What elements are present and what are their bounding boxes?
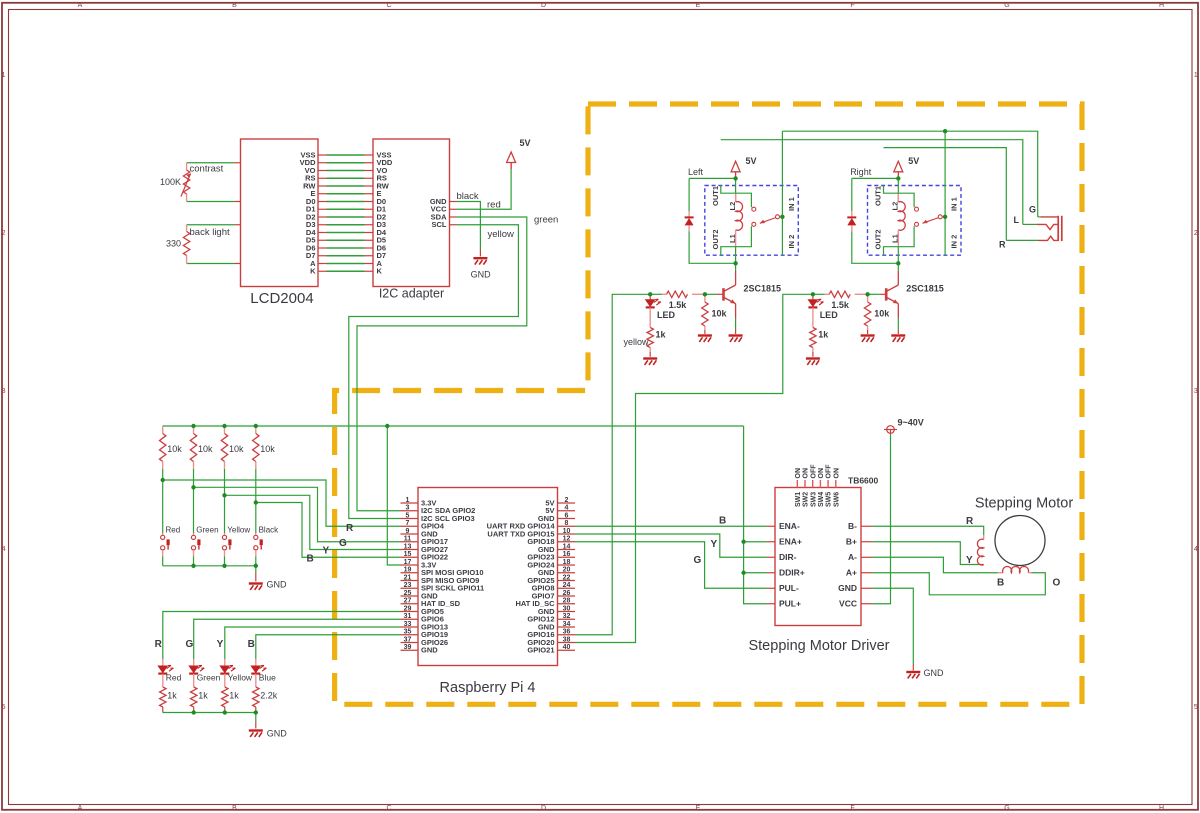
resistor stub	[662, 293, 667, 295]
svg-text:Yellow: Yellow	[227, 526, 250, 535]
junction	[192, 710, 196, 714]
junction	[254, 500, 258, 504]
svg-text:R: R	[346, 523, 354, 534]
junction	[865, 292, 869, 296]
svg-text:25: 25	[404, 590, 412, 597]
wire LCD pin RS to I2C	[318, 177, 327, 179]
resistor R-led1 1k body	[160, 687, 166, 707]
wire to diode	[851, 178, 853, 211]
svg-text:black: black	[457, 191, 479, 202]
RPi pin 25 stub	[401, 595, 419, 597]
wire LCD pin D4 to I2C	[318, 232, 327, 234]
svg-text:OFF: OFF	[810, 464, 817, 479]
wire 5V to coil	[897, 178, 899, 202]
wire contrast top	[187, 162, 235, 164]
wire LCD pin E to I2C	[318, 193, 327, 195]
emitter wire	[897, 304, 899, 318]
wire to diode	[688, 178, 690, 211]
svg-text:32: 32	[563, 613, 571, 620]
I2C adapter module U-I2C	[373, 139, 450, 287]
svg-text:100K: 100K	[160, 177, 181, 187]
svg-text:SCL: SCL	[432, 220, 447, 229]
junction	[733, 176, 737, 180]
svg-text:B: B	[997, 577, 1004, 588]
ground (I2C)	[473, 258, 487, 264]
wire right OUT1 to jack R	[884, 148, 1007, 241]
motor winding A (horizontal coil)	[1003, 567, 1029, 573]
LED D-Yellow	[220, 665, 235, 673]
relay module Right: blue dashed box	[868, 186, 962, 256]
svg-text:1.5k: 1.5k	[669, 300, 688, 310]
relay switch arm pivot	[776, 215, 780, 219]
svg-text:L2: L2	[728, 202, 737, 211]
svg-text:Y: Y	[217, 639, 224, 650]
wire 3.3V to DDIR+	[744, 572, 767, 574]
svg-text:back light: back light	[190, 227, 230, 238]
svg-text:Yellow: Yellow	[228, 673, 253, 683]
RPi pin 20 stub	[558, 572, 576, 574]
wire to ground	[255, 566, 257, 573]
svg-text:1k: 1k	[656, 330, 667, 340]
TB6600 pin SW4 stub	[819, 480, 821, 488]
resistor R-pullup4 stub	[255, 462, 257, 470]
resistor R-pullup3 10k body	[221, 434, 227, 462]
wire	[163, 565, 256, 567]
resistor R-pullup4 10k body	[253, 434, 259, 462]
pin stub VCC	[450, 208, 457, 210]
TB6600 pin PUL+ stub	[767, 603, 775, 605]
RPi pin 31 stub	[401, 618, 419, 620]
junction	[222, 424, 226, 428]
5V power symbol (Right)	[894, 161, 903, 172]
wire LCD pin D0 to I2C	[318, 201, 327, 203]
svg-text:G: G	[1029, 204, 1036, 214]
wire LCD pin VDD to I2C	[318, 162, 327, 164]
resistor R-pullup1 stub	[162, 462, 164, 470]
svg-text:2.2k: 2.2k	[260, 690, 278, 700]
wire LCD pin VSS to I2C	[318, 154, 327, 156]
LED D-Red	[158, 665, 173, 673]
wire LCD pin D1 to I2C	[318, 208, 327, 210]
svg-text:5: 5	[1194, 704, 1198, 711]
wire relay IN1 net to jack G	[782, 131, 1037, 217]
svg-text:IN 1: IN 1	[950, 197, 959, 211]
coil stub	[983, 535, 985, 539]
svg-text:Blue: Blue	[259, 673, 276, 683]
svg-text:L2: L2	[891, 202, 900, 211]
wire LCD pin K to I2C	[318, 270, 327, 272]
wire 9~40V to VCC	[873, 434, 891, 604]
RPi pin 6 stub	[558, 518, 576, 520]
svg-text:22: 22	[563, 574, 571, 581]
svg-text:9~40V: 9~40V	[898, 417, 924, 427]
svg-text:8: 8	[565, 520, 569, 527]
svg-text:GND: GND	[267, 580, 288, 590]
TB6600 pin SW2 stub	[804, 480, 806, 488]
wire LCD pin D7 to I2C	[318, 255, 327, 257]
wire LCD pin D5 to I2C	[318, 239, 327, 241]
LED D-Green	[189, 665, 204, 673]
dashed highlight zone boundary	[335, 104, 1082, 704]
junction	[741, 540, 745, 544]
wire 3.3V rail to RPi pin17	[387, 426, 400, 565]
svg-text:O: O	[1053, 577, 1061, 588]
resistor R-pd-left 10k body	[702, 302, 708, 326]
resistor R-pd-right 10k body	[864, 302, 870, 326]
RPi pin 9 stub	[401, 533, 419, 535]
coil stub	[998, 572, 1004, 574]
resistor pin stub	[186, 225, 188, 232]
wire RPi pin31 to LED Green	[194, 619, 401, 659]
wire button Red to RPi	[163, 480, 401, 526]
RPi pin 22 stub	[558, 580, 576, 582]
TB6600 pin DIR- stub	[767, 556, 775, 558]
diode D-Left flyback	[685, 216, 694, 218]
RPi pin 8 stub	[558, 525, 576, 527]
svg-text:PUL+: PUL+	[779, 598, 801, 608]
wire pullup2 to button	[193, 469, 195, 533]
svg-text:Green: Green	[197, 673, 221, 683]
svg-text:3: 3	[1194, 388, 1198, 395]
svg-text:21: 21	[404, 574, 412, 581]
junction	[254, 710, 258, 714]
RPi pin 33 stub	[401, 626, 419, 628]
TB6600 pin VCC stub	[861, 603, 873, 605]
svg-text:4: 4	[2, 546, 6, 553]
pushbutton SW-Yellow	[222, 535, 231, 550]
wire pullup4 to button	[255, 469, 257, 533]
svg-text:5V: 5V	[908, 156, 919, 166]
RPi pin 16 stub	[558, 556, 576, 558]
relay module Left: blue dashed box	[705, 186, 799, 256]
svg-text:10k: 10k	[260, 444, 275, 454]
svg-text:E: E	[696, 805, 701, 812]
svg-text:13: 13	[404, 543, 412, 550]
svg-text:2SC1815: 2SC1815	[744, 284, 782, 294]
svg-text:3: 3	[2, 388, 6, 395]
resistor stub	[867, 294, 869, 302]
Raspberry Pi 4 module U-RPI	[418, 488, 558, 666]
wire 3.3V rail	[163, 425, 744, 427]
svg-text:OUT1: OUT1	[711, 186, 720, 206]
TB6600 pin ENA+ stub	[767, 541, 775, 543]
wire button Black to RPi	[256, 503, 401, 558]
svg-text:ENA-: ENA-	[779, 521, 800, 531]
TB6600 pin SW6 stub	[835, 480, 837, 488]
wire A+ loop	[873, 573, 1046, 595]
svg-text:R: R	[155, 639, 163, 650]
RPi pin 24 stub	[558, 587, 576, 589]
wire VCC to 5V	[457, 169, 512, 209]
wire OUT1 to contact	[721, 186, 752, 208]
svg-text:12: 12	[563, 536, 571, 543]
pushbutton SW-Red	[161, 535, 170, 550]
9~40V power symbol	[884, 426, 897, 434]
relay coil L1/L2 (Right)	[898, 202, 905, 231]
wire backlight top	[187, 224, 235, 226]
coil stub	[735, 230, 737, 247]
resistor R-led4 2.2k body	[253, 687, 259, 707]
base stub	[880, 293, 887, 295]
svg-text:27: 27	[404, 598, 412, 605]
wire	[781, 131, 783, 255]
svg-text:OUT2: OUT2	[874, 229, 883, 249]
svg-text:SW5: SW5	[826, 492, 833, 507]
svg-text:GND: GND	[838, 583, 857, 593]
svg-text:E: E	[696, 2, 701, 9]
svg-text:38: 38	[563, 636, 571, 643]
svg-text:10k: 10k	[167, 444, 182, 454]
svg-text:10k: 10k	[712, 309, 728, 319]
relay switch arm pivot	[938, 215, 942, 219]
svg-text:1k: 1k	[818, 330, 829, 340]
ground (LED)	[806, 359, 820, 365]
RPi pin 26 stub	[558, 595, 576, 597]
wire LCD pin A to I2C	[318, 263, 327, 265]
svg-text:2: 2	[2, 230, 6, 237]
junction	[703, 292, 707, 296]
svg-text:40: 40	[563, 644, 571, 651]
RPi pin 38 stub	[558, 642, 576, 644]
resistor R-led-left 1k body	[647, 328, 653, 348]
resistor stub	[825, 293, 830, 295]
LED pin stub	[193, 674, 195, 687]
wire diode to coil bottom	[689, 232, 736, 264]
junction	[741, 571, 745, 575]
wire B+ to coil bottom	[873, 542, 980, 565]
resistor R-pullup4 stub	[255, 426, 257, 434]
resistor pin stub	[186, 256, 188, 264]
pushbutton SW-Green	[191, 535, 200, 550]
RPi pin 23 stub	[401, 587, 419, 589]
relay contact (bottom)	[915, 222, 919, 226]
svg-text:ON: ON	[833, 468, 840, 479]
svg-text:Y: Y	[966, 555, 973, 566]
wire RPi pin33 to LED Yellow	[225, 627, 401, 659]
svg-text:H: H	[1159, 805, 1164, 812]
Stepping Motor body	[995, 516, 1045, 566]
svg-text:G: G	[339, 538, 347, 549]
LED pin stub	[193, 659, 195, 666]
wire 3.3V to ENA+	[744, 541, 767, 543]
resistor R-pullup1 10k body	[160, 434, 166, 462]
wire to LED	[649, 294, 651, 299]
diode stub	[851, 211, 853, 217]
wire LCD pin RW to I2C	[318, 185, 327, 187]
svg-text:C: C	[386, 805, 391, 812]
svg-text:Raspberry Pi 4: Raspberry Pi 4	[440, 680, 536, 696]
resistor stub	[855, 293, 868, 295]
svg-text:1k: 1k	[167, 690, 177, 700]
wire OUT1 to contact	[884, 186, 915, 208]
wire RPi pin36 to left transistor base	[575, 294, 650, 634]
resistor R-backlight 330 body	[183, 232, 189, 256]
svg-text:31: 31	[404, 613, 412, 620]
resistor R-pullup3 stub	[224, 462, 226, 470]
junction	[191, 564, 195, 568]
RPi pin 40 stub	[558, 649, 576, 651]
svg-text:SW1: SW1	[795, 492, 802, 507]
transistor Q-right 2SC1815	[886, 285, 898, 304]
svg-text:D: D	[541, 805, 546, 812]
svg-text:10k: 10k	[198, 444, 213, 454]
svg-text:A: A	[78, 2, 83, 9]
transistor Q-left 2SC1815	[724, 285, 736, 304]
RPi pin 17 stub	[401, 564, 419, 566]
svg-text:B: B	[307, 553, 314, 564]
wire button Red to gnd rail	[162, 557, 164, 566]
resistor R-led2 1k body	[191, 687, 197, 707]
svg-text:4: 4	[565, 505, 569, 512]
junction	[191, 424, 195, 428]
svg-text:F: F	[850, 805, 854, 812]
wire RPi pin29 to LED Red	[163, 612, 401, 660]
svg-text:A+: A+	[846, 567, 857, 577]
svg-text:19: 19	[404, 567, 412, 574]
wire B- to motor coil	[873, 526, 984, 535]
svg-text:B: B	[232, 805, 237, 812]
svg-text:3: 3	[406, 505, 410, 512]
LED pin stub	[162, 674, 164, 687]
svg-text:OUT2: OUT2	[711, 229, 720, 249]
svg-text:TB6600: TB6600	[848, 476, 879, 486]
svg-text:SW6: SW6	[833, 492, 840, 507]
svg-text:IN 1: IN 1	[787, 197, 796, 211]
svg-text:A-: A-	[848, 552, 857, 562]
svg-text:IN 2: IN 2	[950, 235, 959, 249]
wire	[1023, 223, 1037, 225]
svg-text:15: 15	[404, 551, 412, 558]
wire LCD pin VO to I2C	[318, 170, 327, 172]
LED stub	[649, 308, 651, 328]
resistor R-led3 1k body	[222, 687, 228, 707]
svg-text:37: 37	[404, 636, 412, 643]
diode D-Right flyback	[847, 216, 856, 218]
svg-text:ON: ON	[803, 468, 810, 479]
svg-text:K: K	[377, 267, 383, 276]
svg-text:ON: ON	[795, 468, 802, 479]
wire LCD pin D3 to I2C	[318, 224, 327, 226]
svg-text:36: 36	[563, 629, 571, 636]
RPi pin 32 stub	[558, 618, 576, 620]
pin stub SCL	[450, 224, 457, 226]
svg-text:B: B	[232, 2, 237, 9]
wire to ground	[255, 713, 257, 723]
RPi pin 19 stub	[401, 572, 419, 574]
wire to LED	[812, 294, 814, 299]
5V power symbol (I2C)	[507, 152, 516, 163]
TB6600 pin A+ stub	[861, 572, 873, 574]
svg-text:D: D	[541, 2, 546, 9]
svg-text:330: 330	[166, 238, 181, 248]
svg-text:Y: Y	[711, 539, 718, 550]
TB6600 pin SW5 stub	[827, 480, 829, 488]
svg-text:10k: 10k	[874, 309, 890, 319]
RPi pin 34 stub	[558, 626, 576, 628]
relay contact (top)	[915, 207, 919, 211]
svg-text:ENA+: ENA+	[779, 536, 802, 546]
diode stub	[688, 225, 690, 231]
svg-text:Stepping Motor Driver: Stepping Motor Driver	[748, 638, 889, 654]
svg-text:35: 35	[404, 629, 412, 636]
wire diode to coil bottom	[852, 232, 899, 264]
svg-text:Left: Left	[688, 167, 704, 177]
svg-text:LED: LED	[657, 310, 676, 320]
junction	[222, 493, 226, 497]
wire	[1038, 216, 1041, 218]
RPi pin 36 stub	[558, 634, 576, 636]
RPi pin 21 stub	[401, 580, 419, 582]
svg-text:B+: B+	[846, 536, 857, 546]
svg-text:GND: GND	[924, 668, 945, 678]
wire pullup1 to button	[162, 469, 164, 533]
svg-text:1k: 1k	[198, 690, 208, 700]
relay switch arm	[923, 218, 939, 224]
svg-text:F: F	[850, 2, 854, 9]
relay switch arm	[760, 218, 776, 224]
resistor R-base-right 1.5k body	[829, 291, 850, 297]
svg-text:28: 28	[563, 598, 571, 605]
wire button Yellow to gnd rail	[224, 557, 226, 566]
svg-text:GPIO21: GPIO21	[527, 646, 554, 655]
wire RPi pin38 to right transistor base	[575, 294, 813, 642]
wire RPi pin35 to LED Blue	[256, 635, 401, 659]
LED pin stub	[255, 674, 257, 687]
LED D-right	[808, 299, 823, 307]
svg-text:33: 33	[404, 621, 412, 628]
resistor stub	[704, 294, 706, 302]
junction	[191, 485, 195, 489]
junction	[943, 129, 947, 133]
RPi pin 4 stub	[558, 510, 576, 512]
svg-text:14: 14	[563, 543, 571, 550]
potentiometer wiper arrow	[181, 174, 191, 197]
svg-text:30: 30	[563, 605, 571, 612]
coil stub	[897, 230, 899, 247]
Stepping Motor Driver module U-TB6600	[775, 488, 861, 626]
svg-text:GND: GND	[471, 269, 492, 279]
pushbutton SW-Black	[254, 535, 263, 550]
wire 5V to coil	[735, 178, 737, 202]
wire	[944, 131, 946, 255]
svg-text:G: G	[186, 639, 194, 650]
svg-text:L: L	[1014, 215, 1020, 225]
svg-text:7: 7	[406, 520, 410, 527]
wire Right 5V junction	[852, 177, 899, 179]
RPi pin 1 stub	[401, 502, 419, 504]
wire I2C GND to ground	[457, 202, 481, 250]
wire OUT2	[884, 226, 915, 255]
TB6600 pin SW1 stub	[796, 480, 798, 488]
junction	[811, 292, 815, 296]
RPi pin 18 stub	[558, 564, 576, 566]
wire relay to collector	[897, 263, 899, 271]
diode stub	[688, 211, 690, 217]
TB6600 pin B+ stub	[861, 541, 873, 543]
svg-text:20: 20	[563, 567, 571, 574]
svg-text:C: C	[386, 2, 391, 9]
LED D-Blue	[251, 665, 266, 673]
relay contact (bottom)	[752, 222, 756, 226]
svg-text:SW3: SW3	[810, 492, 817, 507]
svg-text:5: 5	[2, 704, 6, 711]
TB6600 pin DDIR+ stub	[767, 572, 775, 574]
svg-text:Red: Red	[166, 526, 181, 535]
svg-text:Green: Green	[196, 526, 218, 535]
LED stub	[812, 308, 814, 328]
svg-text:GND: GND	[267, 728, 288, 738]
svg-text:29: 29	[404, 605, 412, 612]
